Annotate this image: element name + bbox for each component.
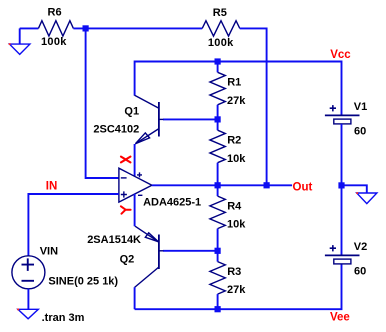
svg-text:2SC4102: 2SC4102 [93,123,139,135]
wire [73,27,202,29]
node junction [215,58,221,64]
wire IN input [28,194,119,256]
svg-text:100k: 100k [208,37,234,49]
wire [163,250,218,252]
wire [217,105,219,120]
battery V2 [325,245,360,264]
wire [217,185,219,196]
svg-text:100k: 100k [41,36,67,48]
wire [163,118,218,120]
svg-text:Q1: Q1 [124,106,139,118]
wire [341,124,343,255]
node junction [338,182,344,188]
battery V1 [325,105,360,124]
svg-text:VIN: VIN [40,246,58,258]
wire [217,163,219,186]
svg-text:R3: R3 [227,266,241,278]
wire [134,287,136,309]
resistor R4 [210,196,225,229]
wire Vcc rail [135,62,342,115]
svg-text:IN: IN [46,180,58,192]
resistor R6 [38,21,73,36]
wire [217,62,219,73]
wire [27,289,29,310]
svg-text:Q2: Q2 [120,253,135,265]
resistor R1 [210,72,225,105]
node Out [264,182,270,188]
wire [217,294,219,309]
node junction [215,248,221,254]
wire Vee rail [135,264,342,309]
transistor Q2 [135,226,164,287]
ground [19,28,21,44]
svg-text:ADA4625-1: ADA4625-1 [143,197,201,209]
wire inverting input [86,28,119,178]
svg-text:60: 60 [354,125,366,137]
svg-text:R1: R1 [227,77,241,89]
node junction [215,306,221,312]
svg-text:10k: 10k [227,219,246,231]
node junction [83,25,89,31]
wire [134,144,136,176]
node Y mark [121,206,131,213]
svg-text:27k: 27k [227,95,246,107]
wire [217,229,219,251]
svg-text:R4: R4 [227,201,242,213]
svg-text:Out: Out [293,181,313,193]
wire [342,185,367,193]
svg-text:R5: R5 [213,7,227,19]
svg-text:60: 60 [354,265,366,277]
wire [20,27,39,29]
svg-text:10k: 10k [227,153,246,165]
ground [18,309,38,319]
resistor R3 [210,262,225,295]
resistor R5 [202,21,240,36]
svg-text:SINE(0 25 1k): SINE(0 25 1k) [48,275,118,287]
wire [217,251,219,262]
node junction [215,182,221,188]
svg-text:27k: 27k [227,284,246,296]
svg-text:Vcc: Vcc [330,49,351,61]
ground [357,193,377,204]
op-amp U1 ADA4625-1 [119,168,152,202]
svg-text:R6: R6 [48,7,62,19]
node junction [215,116,221,122]
resistor R2 [210,130,225,163]
wire [240,28,267,185]
svg-text:V2: V2 [354,241,367,253]
voltage source VIN [12,256,45,289]
svg-text:.tran 3m: .tran 3m [42,312,85,324]
svg-text:V1: V1 [354,101,367,113]
svg-text:Vee: Vee [330,312,350,324]
wire output [152,184,292,186]
wire [217,119,219,130]
node X mark [121,157,130,163]
svg-text:R2: R2 [227,135,241,147]
svg-text:2SA1514K: 2SA1514K [87,234,141,246]
transistor Q1 [135,95,164,144]
wire [134,194,136,226]
